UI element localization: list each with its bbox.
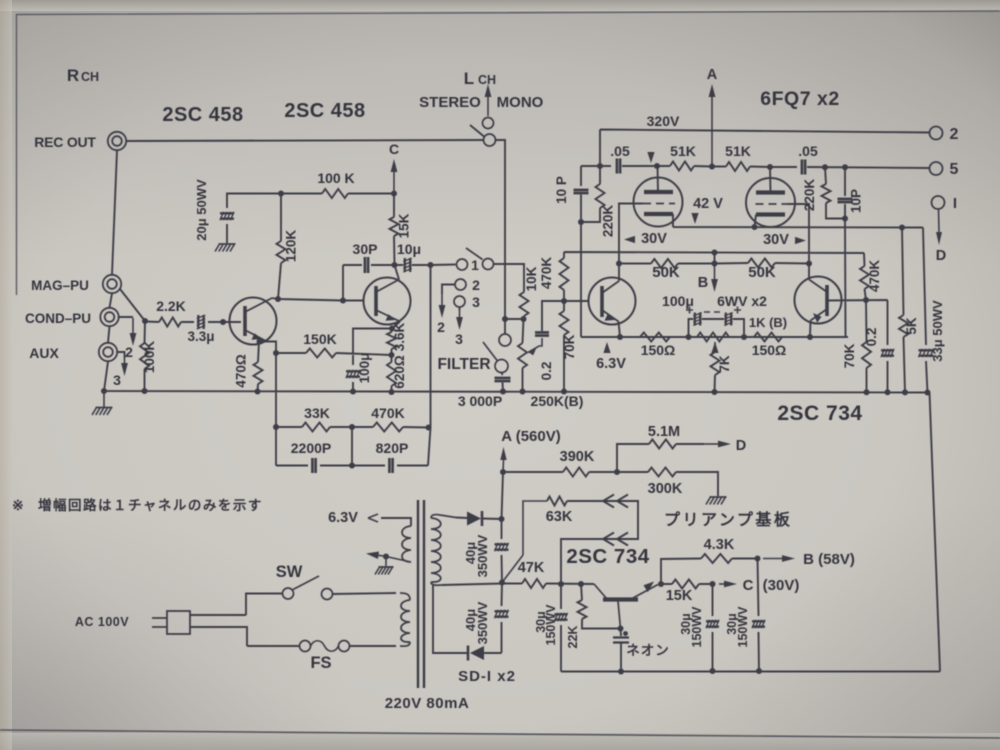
junction dots — [101, 388, 107, 394]
page border frame — [17, 11, 1000, 295]
pot wiper with 0.2 cap — [528, 338, 542, 353]
arrow B — [714, 264, 716, 280]
capacitor 2200P — [312, 458, 315, 473]
svg-text:5.1M: 5.1M — [648, 424, 680, 440]
svg-text:5: 5 — [950, 161, 959, 178]
svg-text:390K: 390K — [560, 449, 595, 465]
svg-text:5K: 5K — [904, 317, 919, 335]
capacitor 10u electrolytic — [403, 258, 411, 272]
resistor 150ohm left — [640, 333, 670, 342]
tube V2 6FQ7 — [746, 178, 795, 227]
svg-text:2SC 734: 2SC 734 — [777, 402, 862, 425]
resistor 5.1M to D — [649, 440, 676, 449]
transistor Q1 2SC458 — [230, 298, 277, 345]
svg-text:100μ: 100μ — [662, 293, 694, 309]
selector position arrow 3 — [124, 358, 126, 363]
svg-text:MAG–PU: MAG–PU — [31, 278, 89, 293]
svg-text:AUX: AUX — [29, 345, 59, 361]
resistor 22K — [578, 600, 587, 619]
resistor 300K — [648, 468, 676, 477]
capacitor 33u 50WV — [919, 349, 934, 357]
svg-text:15K: 15K — [666, 588, 693, 604]
resistor 3.6K — [387, 332, 396, 349]
svg-text:15K: 15K — [397, 213, 412, 238]
tube V1 6FQ7 — [634, 178, 683, 227]
feedback network 470K 820P — [373, 423, 403, 432]
resistor 150ohm right — [754, 333, 782, 342]
svg-text:CH: CH — [478, 73, 496, 87]
resistor 100K input — [140, 343, 149, 369]
svg-text:320V: 320V — [647, 113, 680, 129]
svg-text:150WV: 150WV — [690, 606, 704, 648]
chevron marks preamp connection upper — [603, 495, 628, 508]
node B output — [763, 558, 782, 560]
svg-text:63K: 63K — [546, 509, 573, 525]
capacitor .05 left — [617, 159, 620, 174]
resistor 70K left — [560, 311, 569, 335]
capacitor 30u 150WV second — [706, 620, 719, 628]
svg-text:51K: 51K — [725, 143, 751, 159]
transformer primary winding — [401, 600, 410, 642]
svg-text:2: 2 — [472, 277, 480, 293]
resistor 620ohm — [387, 362, 396, 386]
resistor 50K right — [748, 259, 775, 268]
resistor 10K — [520, 292, 529, 316]
resistor 47K — [522, 579, 546, 588]
terminal COND-PU — [100, 308, 118, 326]
node C supply — [393, 172, 395, 193]
resistor 70K right — [862, 342, 871, 368]
capacitor 820P — [389, 458, 392, 473]
svg-text:2SC 458: 2SC 458 — [162, 104, 243, 126]
resistor 150K — [306, 349, 336, 358]
resistor 470K right — [860, 266, 869, 289]
svg-text:増幅回路は１チャネルのみを示す: 増幅回路は１チャネルのみを示す — [38, 497, 263, 513]
arrow D output — [938, 209, 941, 232]
svg-text:A (560V): A (560V) — [501, 428, 560, 445]
svg-text:AC 100V: AC 100V — [75, 615, 129, 629]
capacitor 40u 350WV lower — [495, 610, 509, 618]
svg-text:150Ω: 150Ω — [752, 342, 787, 358]
terminal REC OUT — [108, 132, 126, 150]
svg-text:L: L — [464, 69, 474, 88]
rotary contact 2 — [455, 279, 466, 290]
svg-text:10P: 10P — [849, 189, 864, 213]
svg-text:150WV: 150WV — [544, 604, 558, 646]
transformer heater winding 6.3V — [402, 526, 411, 562]
capacitor 30P — [365, 257, 368, 273]
svg-text:6.3V: 6.3V — [596, 356, 626, 372]
svg-text:6FQ7 x2: 6FQ7 x2 — [760, 88, 839, 110]
node main PSU junction A — [502, 460, 505, 472]
svg-text:.05: .05 — [798, 143, 818, 159]
svg-text:MONO: MONO — [497, 94, 544, 111]
arrow from contact 2 — [441, 294, 443, 305]
svg-text:COND–PU: COND–PU — [25, 311, 91, 326]
capacitor 10P left — [574, 190, 589, 193]
svg-text:47K: 47K — [518, 560, 545, 576]
svg-text:2200P: 2200P — [291, 440, 331, 456]
resistor 120K — [277, 241, 286, 263]
resistor 4.3K — [701, 554, 732, 563]
selector position arrow 2 — [132, 318, 134, 333]
svg-text:2SC 458: 2SC 458 — [284, 100, 365, 122]
svg-text:2SC 734: 2SC 734 — [566, 545, 649, 568]
svg-text:2: 2 — [950, 126, 959, 143]
svg-text:100 K: 100 K — [317, 170, 354, 186]
diode SD-1 upper — [467, 512, 481, 526]
svg-text:4.3K: 4.3K — [704, 537, 735, 553]
ground at 300K — [706, 497, 727, 505]
switch SW — [283, 588, 294, 599]
ground at input bus — [103, 391, 105, 407]
svg-text:820P: 820P — [376, 440, 409, 456]
svg-text:6.3V: 6.3V — [328, 510, 358, 526]
label 30V left — [624, 236, 635, 243]
capacitor 0.2 right — [881, 349, 894, 357]
svg-text:250K(B): 250K(B) — [531, 393, 584, 409]
capacitor 100u bypass — [346, 370, 360, 378]
svg-text:3 000P: 3 000P — [458, 393, 502, 409]
resistor 100K top — [322, 189, 348, 198]
svg-text:A: A — [707, 67, 718, 83]
transistor Q4 2SC734 — [795, 277, 842, 324]
transistor Q5 2SC734 output — [603, 597, 638, 601]
marker 6.3V — [603, 342, 610, 353]
svg-text:22K: 22K — [566, 626, 580, 649]
svg-text:350WV: 350WV — [475, 601, 490, 644]
svg-text:3.3μ: 3.3μ — [187, 329, 214, 344]
capacitor 100u 6WVx2 pair — [693, 313, 701, 326]
diode SD-1 lower — [470, 646, 484, 660]
svg-text:SD-I x2: SD-I x2 — [458, 668, 516, 685]
svg-text:REC OUT: REC OUT — [34, 134, 96, 150]
resistor 51K right — [726, 162, 750, 171]
svg-text:42 V: 42 V — [693, 196, 723, 212]
transformer secondary winding — [431, 518, 441, 582]
resistor 15K — [672, 580, 699, 589]
svg-text:FILTER: FILTER — [437, 356, 490, 373]
capacitor 20u 50WV branch — [220, 212, 234, 220]
svg-text:30V: 30V — [641, 231, 667, 247]
arrow A — [711, 97, 713, 166]
resistor 2.2K — [159, 318, 181, 327]
svg-text:3.6K: 3.6K — [392, 322, 407, 351]
svg-text:150Ω: 150Ω — [641, 342, 676, 358]
svg-text:6WV x2: 6WV x2 — [717, 293, 767, 309]
terminal 2 — [930, 127, 943, 140]
svg-text:300K: 300K — [648, 481, 683, 497]
svg-text:70K: 70K — [562, 334, 577, 359]
rotary contact 3 — [454, 296, 465, 307]
svg-text:50K: 50K — [748, 264, 776, 281]
resistor 15K — [390, 217, 399, 236]
svg-text:SW: SW — [276, 563, 303, 581]
svg-text:120K: 120K — [284, 230, 299, 263]
resistor 51K left — [670, 162, 694, 171]
svg-text:51K: 51K — [670, 143, 696, 159]
svg-text:D: D — [736, 438, 746, 454]
plug AC 100V — [167, 611, 190, 634]
feedback network 33K 2200P — [302, 423, 330, 432]
svg-text:470K: 470K — [539, 257, 554, 290]
capacitor 40u 350WV upper — [495, 543, 509, 551]
capacitor 10P right — [838, 199, 853, 202]
wire secondary bottom center tap — [431, 582, 442, 585]
node C output — [719, 583, 724, 585]
capacitor 0.2 left — [535, 332, 549, 335]
neon lamp — [613, 638, 629, 643]
svg-text:150K: 150K — [303, 331, 336, 347]
svg-text:10K: 10K — [524, 266, 539, 291]
svg-text:30V: 30V — [763, 232, 789, 248]
potentiometer 250K(B) — [518, 343, 527, 368]
svg-text:10 P: 10 P — [554, 176, 569, 204]
svg-text:33μ 50WV: 33μ 50WV — [930, 300, 945, 362]
svg-text:B: B — [698, 275, 708, 291]
svg-text:0.2: 0.2 — [539, 362, 554, 381]
voltage marker 320V triangle — [647, 152, 654, 163]
svg-text:R: R — [67, 66, 79, 85]
svg-text:1K (B): 1K (B) — [749, 315, 787, 330]
svg-text:2.2K: 2.2K — [156, 298, 186, 314]
transistor Q2 2SC458 — [364, 278, 411, 325]
stereo-mono arrow — [487, 97, 489, 116]
svg-text:220V 80mA: 220V 80mA — [385, 695, 470, 712]
svg-text:100μ: 100μ — [357, 353, 372, 384]
resistor 7K — [711, 352, 720, 375]
svg-text:(30V): (30V) — [763, 577, 800, 594]
svg-text:30P: 30P — [353, 241, 378, 257]
svg-text:C: C — [389, 141, 399, 157]
switch FILTER — [499, 334, 511, 346]
svg-text:470K: 470K — [867, 260, 882, 293]
resistor 220K left — [596, 184, 605, 208]
svg-text:2: 2 — [437, 319, 445, 335]
svg-text:20μ 50WV: 20μ 50WV — [194, 179, 209, 241]
transistor Q3 2SC734 — [589, 278, 636, 325]
terminal 1 — [932, 196, 945, 209]
svg-text:2: 2 — [125, 344, 133, 360]
svg-text:I: I — [953, 195, 957, 212]
resistor 1K(B) — [697, 333, 729, 342]
svg-text:50K: 50K — [652, 264, 680, 281]
capacitor .05 right — [802, 160, 805, 175]
resistor 63K with board chevrons — [523, 501, 547, 555]
svg-text:7K: 7K — [717, 355, 732, 373]
svg-text:0.2: 0.2 — [864, 328, 879, 347]
resistor 5K — [899, 315, 908, 337]
capacitor 3.3u — [197, 315, 205, 329]
svg-text:100K: 100K — [142, 341, 157, 374]
resistor 470ohm — [254, 362, 263, 384]
svg-text:※: ※ — [12, 497, 24, 513]
capacitor 3000P — [495, 378, 511, 381]
resistor 390K — [563, 468, 589, 477]
svg-text:70K: 70K — [842, 343, 857, 368]
svg-text:33K: 33K — [304, 405, 330, 421]
rotary contact 1 with arm — [457, 259, 468, 270]
wire secondary top to diode — [431, 515, 456, 518]
arrow 7K wiper — [711, 342, 718, 353]
label 42V with marker — [691, 213, 698, 224]
svg-text:1: 1 — [471, 257, 479, 273]
svg-text:B (58V): B (58V) — [803, 551, 855, 568]
svg-text:10μ: 10μ — [397, 241, 421, 257]
svg-text:3: 3 — [455, 331, 463, 347]
svg-text:470K: 470K — [371, 405, 404, 421]
chevron marks preamp connection lower — [603, 533, 628, 546]
svg-text:3: 3 — [472, 294, 480, 310]
svg-text:470Ω: 470Ω — [234, 354, 249, 388]
switch stereo/mono — [483, 118, 494, 129]
svg-text:プリアンプ基板: プリアンプ基板 — [664, 510, 792, 529]
svg-text:3: 3 — [113, 372, 121, 388]
svg-text:FS: FS — [310, 654, 331, 672]
terminal MAG-PU — [103, 275, 121, 293]
svg-text:CH: CH — [81, 70, 99, 84]
capacitor 30u 150WV first — [555, 613, 568, 621]
wire segments — [104, 130, 940, 672]
svg-text:STEREO: STEREO — [419, 94, 481, 111]
label 30V right — [795, 237, 806, 244]
resistor 50K left — [651, 259, 678, 268]
terminal AUX — [99, 343, 117, 361]
capacitor 30u 150WV third — [752, 620, 765, 628]
resistor 220K right — [822, 184, 831, 203]
svg-text:ネオン: ネオン — [626, 643, 670, 658]
transformer core — [418, 500, 424, 688]
svg-text:350WV: 350WV — [475, 534, 490, 577]
svg-text:620Ω: 620Ω — [392, 355, 407, 389]
heater center tap ground — [386, 557, 411, 563]
svg-text:220K: 220K — [601, 205, 616, 238]
arrow from contact 3 — [459, 310, 461, 317]
fuse FS — [300, 641, 311, 652]
resistor 470K first stage — [560, 258, 569, 290]
svg-text:.05: .05 — [610, 143, 630, 159]
svg-text:150WV: 150WV — [736, 606, 750, 648]
svg-text:D: D — [936, 248, 946, 264]
svg-text:220K: 220K — [802, 179, 817, 212]
svg-text:C: C — [743, 577, 754, 594]
terminal 5 — [930, 162, 943, 175]
